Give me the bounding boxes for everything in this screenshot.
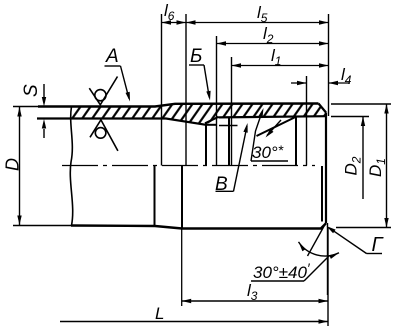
- svg-text:D: D: [3, 158, 23, 171]
- svg-text:L: L: [155, 304, 164, 323]
- dimension l5: [186, 22, 329, 24]
- break line (wavy) at left: [70, 107, 72, 226]
- bore bottom at small bore: [206, 124, 217, 126]
- dimension l6: [162, 22, 187, 24]
- top outline of part (outer surface, with taper): [38, 104, 319, 107]
- D top extension: [13, 106, 38, 108]
- svg-text:30°±40′: 30°±40′: [253, 260, 311, 282]
- edge line taper end (bottom half) + l3 extension: [181, 166, 183, 229]
- edge line cone large end x=296: [295, 117, 297, 166]
- svg-text:l1: l1: [271, 46, 281, 68]
- centerline (axis): [62, 165, 315, 167]
- bore outline: thin wall bottom, expansion cone: [37, 119, 206, 125]
- D2 dimension line (single arrow): [362, 117, 364, 200]
- edge line taper start (bottom half): [154, 166, 156, 227]
- extension line x=161.5 (l6 left): [161, 14, 163, 166]
- S extension of wall bottom: [37, 118, 71, 120]
- D1 dimension line: [386, 104, 388, 228]
- edge line at x=229: [228, 117, 230, 166]
- chamfer direction extension line: [308, 224, 326, 257]
- dimension l4 (arrows outside): [291, 82, 307, 84]
- hatched section band (upper half wall): [71, 104, 326, 125]
- svg-text:l2: l2: [263, 24, 274, 46]
- S dimension: [43, 84, 45, 97]
- dimension l3: [182, 300, 328, 302]
- svg-text:D1: D1: [366, 158, 388, 177]
- dimension L (broken, one arrow): [60, 321, 328, 323]
- internal seat cone edge: [257, 117, 297, 137]
- face extension line below corner: [327, 223, 329, 295]
- roughness symbol below wall (check with circle): [90, 120, 118, 151]
- extension right x=328 to bottom: [327, 228, 329, 326]
- svg-text:l4: l4: [341, 65, 352, 87]
- svg-text:30°*: 30°*: [252, 142, 284, 162]
- extension line x=216.5 (l2 left): [216, 36, 218, 166]
- bottom outline of part: [71, 224, 326, 229]
- edge line at x=206 (bore step): [205, 122, 207, 166]
- chamfer edge top-right corner: [319, 104, 327, 113]
- roughness symbol above wall (check with circle): [89, 77, 117, 105]
- svg-text:S: S: [21, 84, 42, 97]
- D1 extension top: [331, 103, 391, 105]
- D2 extension top: [331, 116, 369, 118]
- dimension l2: [217, 43, 329, 45]
- svg-text:l3: l3: [247, 281, 258, 303]
- angle dimension arc: [299, 242, 340, 256]
- second arrow of 30deg note: [267, 120, 281, 136]
- svg-text:А: А: [105, 46, 119, 67]
- svg-text:D2: D2: [342, 156, 364, 175]
- bore internal chamfer 30 deg: [205, 117, 219, 124]
- dimension l1: [232, 65, 329, 67]
- D1 extension bottom: [336, 227, 391, 229]
- D dimension: [19, 107, 21, 226]
- svg-text:l6: l6: [164, 1, 175, 23]
- svg-text:l5: l5: [257, 3, 268, 25]
- chamfer edge circle line at right face: [321, 166, 323, 222]
- bore step line: [219, 125, 238, 127]
- extension line x=231.5 (l1 left): [231, 57, 233, 166]
- svg-text:Г: Г: [372, 234, 385, 256]
- right face of part: [325, 113, 327, 224]
- D bottom extension: [13, 225, 71, 227]
- extension line x=328.5 (right, common): [328, 14, 330, 116]
- extension line x=306.5 (l4 left): [306, 76, 308, 166]
- svg-text:Б: Б: [190, 46, 202, 67]
- extension line x=186 (l6 right / l5 left): [185, 14, 187, 166]
- bore line (large bore): [219, 116, 327, 117]
